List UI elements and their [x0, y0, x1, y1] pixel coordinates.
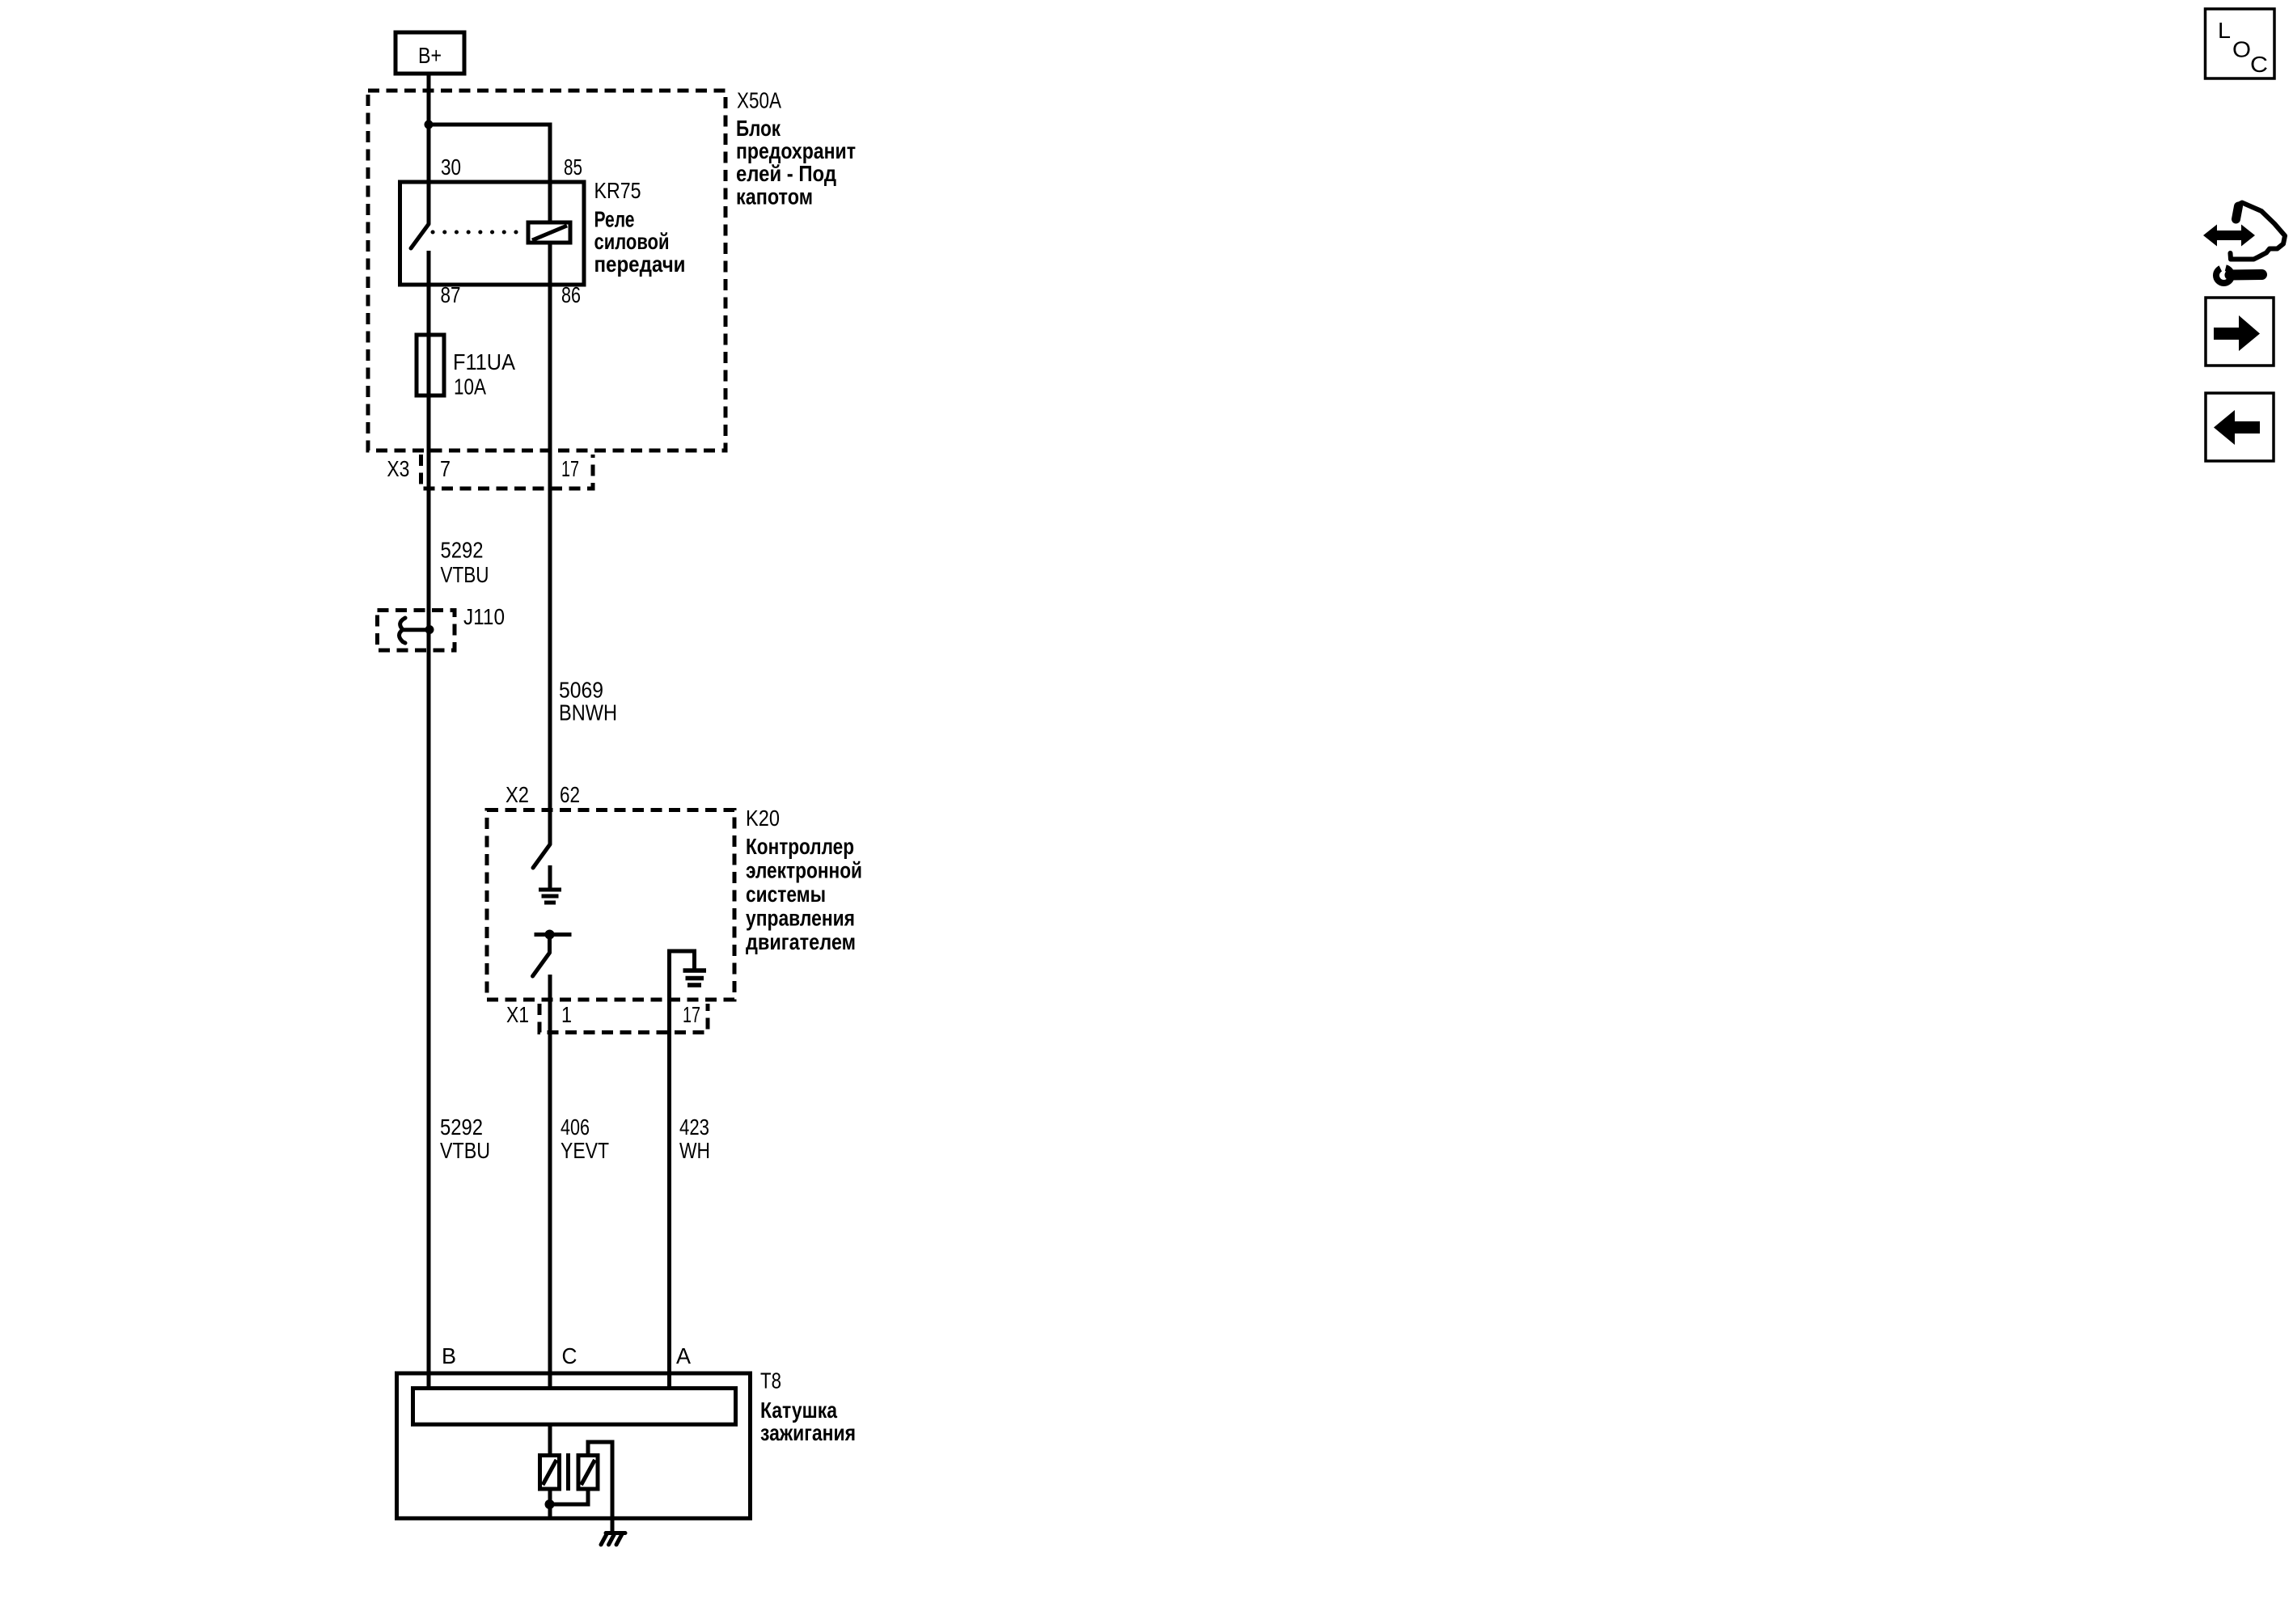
svg-text:WH: WH [679, 1138, 710, 1163]
forward arrow box [2206, 298, 2274, 366]
svg-text:Реле: Реле [594, 207, 635, 232]
svg-text:X2: X2 [506, 782, 529, 807]
wire relay 86 down through connector X3 pin 17 to K20 [548, 243, 552, 844]
diagnostics icon: double arrow [2203, 225, 2255, 247]
svg-text:5292: 5292 [440, 1114, 483, 1140]
svg-text:A: A [676, 1343, 692, 1368]
svg-text:406: 406 [561, 1114, 590, 1140]
svg-text:5292: 5292 [441, 538, 484, 563]
K20 output switch stem [548, 935, 552, 954]
relay fixed contact stub 87 [427, 251, 431, 396]
svg-text:X1: X1 [506, 1002, 529, 1027]
wire splice down to T8 pin B [427, 629, 431, 1389]
relay coil diagonal [532, 226, 567, 240]
name Катушка зажигания [760, 1398, 856, 1445]
svg-text:85: 85 [564, 154, 582, 180]
link windings bottoms [550, 1489, 588, 1504]
svg-text:капотом: капотом [736, 184, 813, 209]
K20 internal ground symbol [539, 890, 561, 903]
svg-text:Блок: Блок [736, 116, 781, 141]
svg-text:F11UA: F11UA [453, 349, 516, 374]
relay coil box [528, 222, 570, 243]
relay actuation dotted link [433, 230, 527, 235]
svg-text:Контроллер: Контроллер [746, 834, 854, 859]
svg-text:17: 17 [561, 456, 579, 481]
K20 output switch pivot dot [545, 930, 555, 940]
svg-text:Катушка: Катушка [760, 1398, 838, 1423]
chassis ground symbol [601, 1533, 625, 1545]
svg-text:VTBU: VTBU [441, 562, 489, 587]
primary winding [540, 1456, 560, 1490]
ignition coil T8 box [397, 1373, 751, 1518]
wire primary bottom to T8 case [548, 1489, 552, 1518]
wire B+ feed down to relay pin 30 [427, 74, 431, 224]
svg-text:423: 423 [679, 1114, 709, 1140]
svg-text:17: 17 [683, 1002, 700, 1027]
K20 output switch pivot bar [535, 933, 572, 937]
splice J110 (dashed box) [378, 611, 455, 651]
svg-text:предохранит: предохранит [736, 138, 856, 163]
svg-text:T8: T8 [760, 1368, 781, 1393]
connector X1 (dashed half-box) [539, 1004, 708, 1033]
diagnostics icon: wrench [2216, 260, 2262, 283]
svg-text:силовой: силовой [594, 229, 670, 254]
K20 output switch blade [533, 953, 550, 976]
wire T8 bar to primary winding [548, 1424, 552, 1455]
svg-text:B+: B+ [418, 43, 442, 68]
svg-text:7: 7 [440, 456, 451, 481]
svg-text:X50A: X50A [737, 88, 782, 113]
wire K20 X1-1 down to T8 pin C [548, 975, 552, 1389]
splice curl [400, 618, 406, 643]
primary winding diagonal [543, 1460, 556, 1485]
ground net wire from T8 pin A up into K20 [670, 951, 695, 1389]
wire fuse output through connector X3 pin 7 [427, 395, 431, 629]
svg-text:5069: 5069 [559, 678, 603, 703]
T8 primary bar [413, 1389, 736, 1425]
K20 driver switch blade [533, 844, 550, 868]
wire jumper from junction to relay pin 85 [429, 125, 550, 222]
svg-text:BNWH: BNWH [559, 700, 617, 725]
svg-text:X3: X3 [387, 456, 409, 481]
fuse F11UA [417, 335, 444, 395]
svg-text:KR75: KR75 [594, 178, 641, 203]
svg-text:87: 87 [441, 282, 461, 307]
node junction on B+ feed [425, 121, 434, 129]
winding common node dot [545, 1499, 555, 1509]
svg-text:зажигания: зажигания [760, 1420, 856, 1445]
secondary winding diagonal [582, 1460, 595, 1485]
back arrow box [2206, 393, 2274, 461]
svg-text:O: O [2232, 37, 2251, 62]
svg-text:10A: 10A [454, 374, 487, 400]
svg-text:K20: K20 [746, 806, 780, 831]
svg-text:L: L [2218, 18, 2231, 43]
svg-text:62: 62 [560, 782, 580, 807]
svg-text:передачи: передачи [594, 252, 686, 277]
connector X3 (dashed half-box) [421, 455, 594, 488]
svg-text:VTBU: VTBU [440, 1138, 490, 1163]
svg-text:елей - Под: елей - Под [736, 161, 836, 186]
svg-text:30: 30 [441, 154, 461, 180]
svg-text:1: 1 [561, 1002, 572, 1027]
svg-text:системы: системы [746, 882, 826, 907]
K20 internal ground stub [548, 865, 552, 890]
splice node dot [425, 625, 434, 634]
svg-text:YEVT: YEVT [561, 1138, 609, 1163]
K20 pin 17 ground symbol [683, 971, 707, 985]
svg-text:управления: управления [746, 906, 855, 931]
relay switch blade (pin 30 to 87) [411, 224, 429, 248]
winding separator [566, 1453, 570, 1491]
name Реле силовой передачи [594, 207, 686, 277]
svg-text:C: C [562, 1343, 577, 1368]
diagnostics icon: car outline [2231, 203, 2286, 260]
ECM K20 (dashed box) [487, 810, 734, 1000]
secondary winding [578, 1456, 598, 1490]
svg-text:J110: J110 [463, 604, 505, 629]
splice bar [402, 628, 429, 632]
secondary top lead to chassis [588, 1442, 612, 1532]
svg-text:B: B [442, 1343, 456, 1368]
svg-text:двигателем: двигателем [746, 929, 856, 954]
name Блок предохранителей - Под капотом [736, 116, 856, 209]
fuse block X50A (dashed enclosure) [368, 91, 726, 450]
svg-text:электронной: электронной [746, 858, 862, 883]
name Контроллер электронной системы управления двигателем [746, 834, 862, 954]
svg-text:86: 86 [561, 282, 581, 307]
svg-text:C: C [2250, 52, 2268, 77]
power node B+ [396, 32, 464, 74]
LOC legend box [2206, 9, 2275, 78]
relay KR75 box [400, 182, 585, 285]
